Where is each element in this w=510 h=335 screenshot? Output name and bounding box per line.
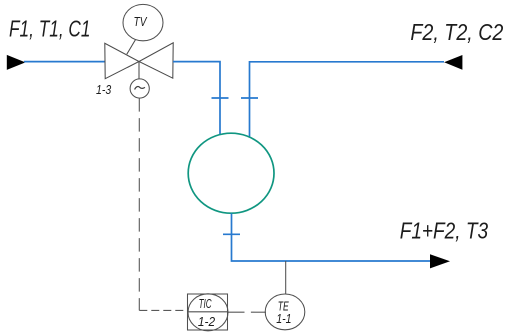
svg-text:F1+F2, T3: F1+F2, T3 [400,218,489,244]
signal line valve to controller (dashed vertical) [138,98,140,310]
svg-text:1-2: 1-2 [198,314,216,329]
inlet arrow F2 [444,55,462,70]
signal line corner to TIC (dashed horizontal) [139,309,187,311]
controller TIC square [188,294,228,330]
actuator stem [127,40,136,55]
controller TIC divider line [188,311,228,313]
svg-text:F1, T1, C1: F1, T1, C1 [9,16,91,42]
actuator circle TV [123,4,163,40]
signal line TIC to TE (dashed horizontal) [228,311,267,313]
valve to transducer link [138,62,140,80]
sensor TE circle [265,294,305,330]
mixer vessel circle [188,133,274,213]
pipe mixer outlet [232,213,431,261]
svg-text:1-3: 1-3 [96,82,112,97]
tick mark left branch [212,97,229,99]
tick mark right branch [241,97,258,99]
pipe F2 inlet [250,62,445,137]
tick mark outlet [223,233,240,235]
sensing line TE to pipe [285,261,287,294]
pipe F1 inlet [24,61,105,63]
svg-text:TIC: TIC [199,296,212,311]
svg-text:F2, T2, C2: F2, T2, C2 [410,19,503,45]
tilde symbol [135,87,145,90]
pipe valve outlet [173,62,220,134]
svg-text:1-1: 1-1 [276,311,291,326]
control valve body [105,43,173,79]
outlet arrow F1+F2 [430,254,450,268]
transducer circle [130,79,149,98]
inlet arrow F1 [7,55,26,70]
controller TIC circle [188,294,228,331]
svg-text:TV: TV [134,14,148,29]
